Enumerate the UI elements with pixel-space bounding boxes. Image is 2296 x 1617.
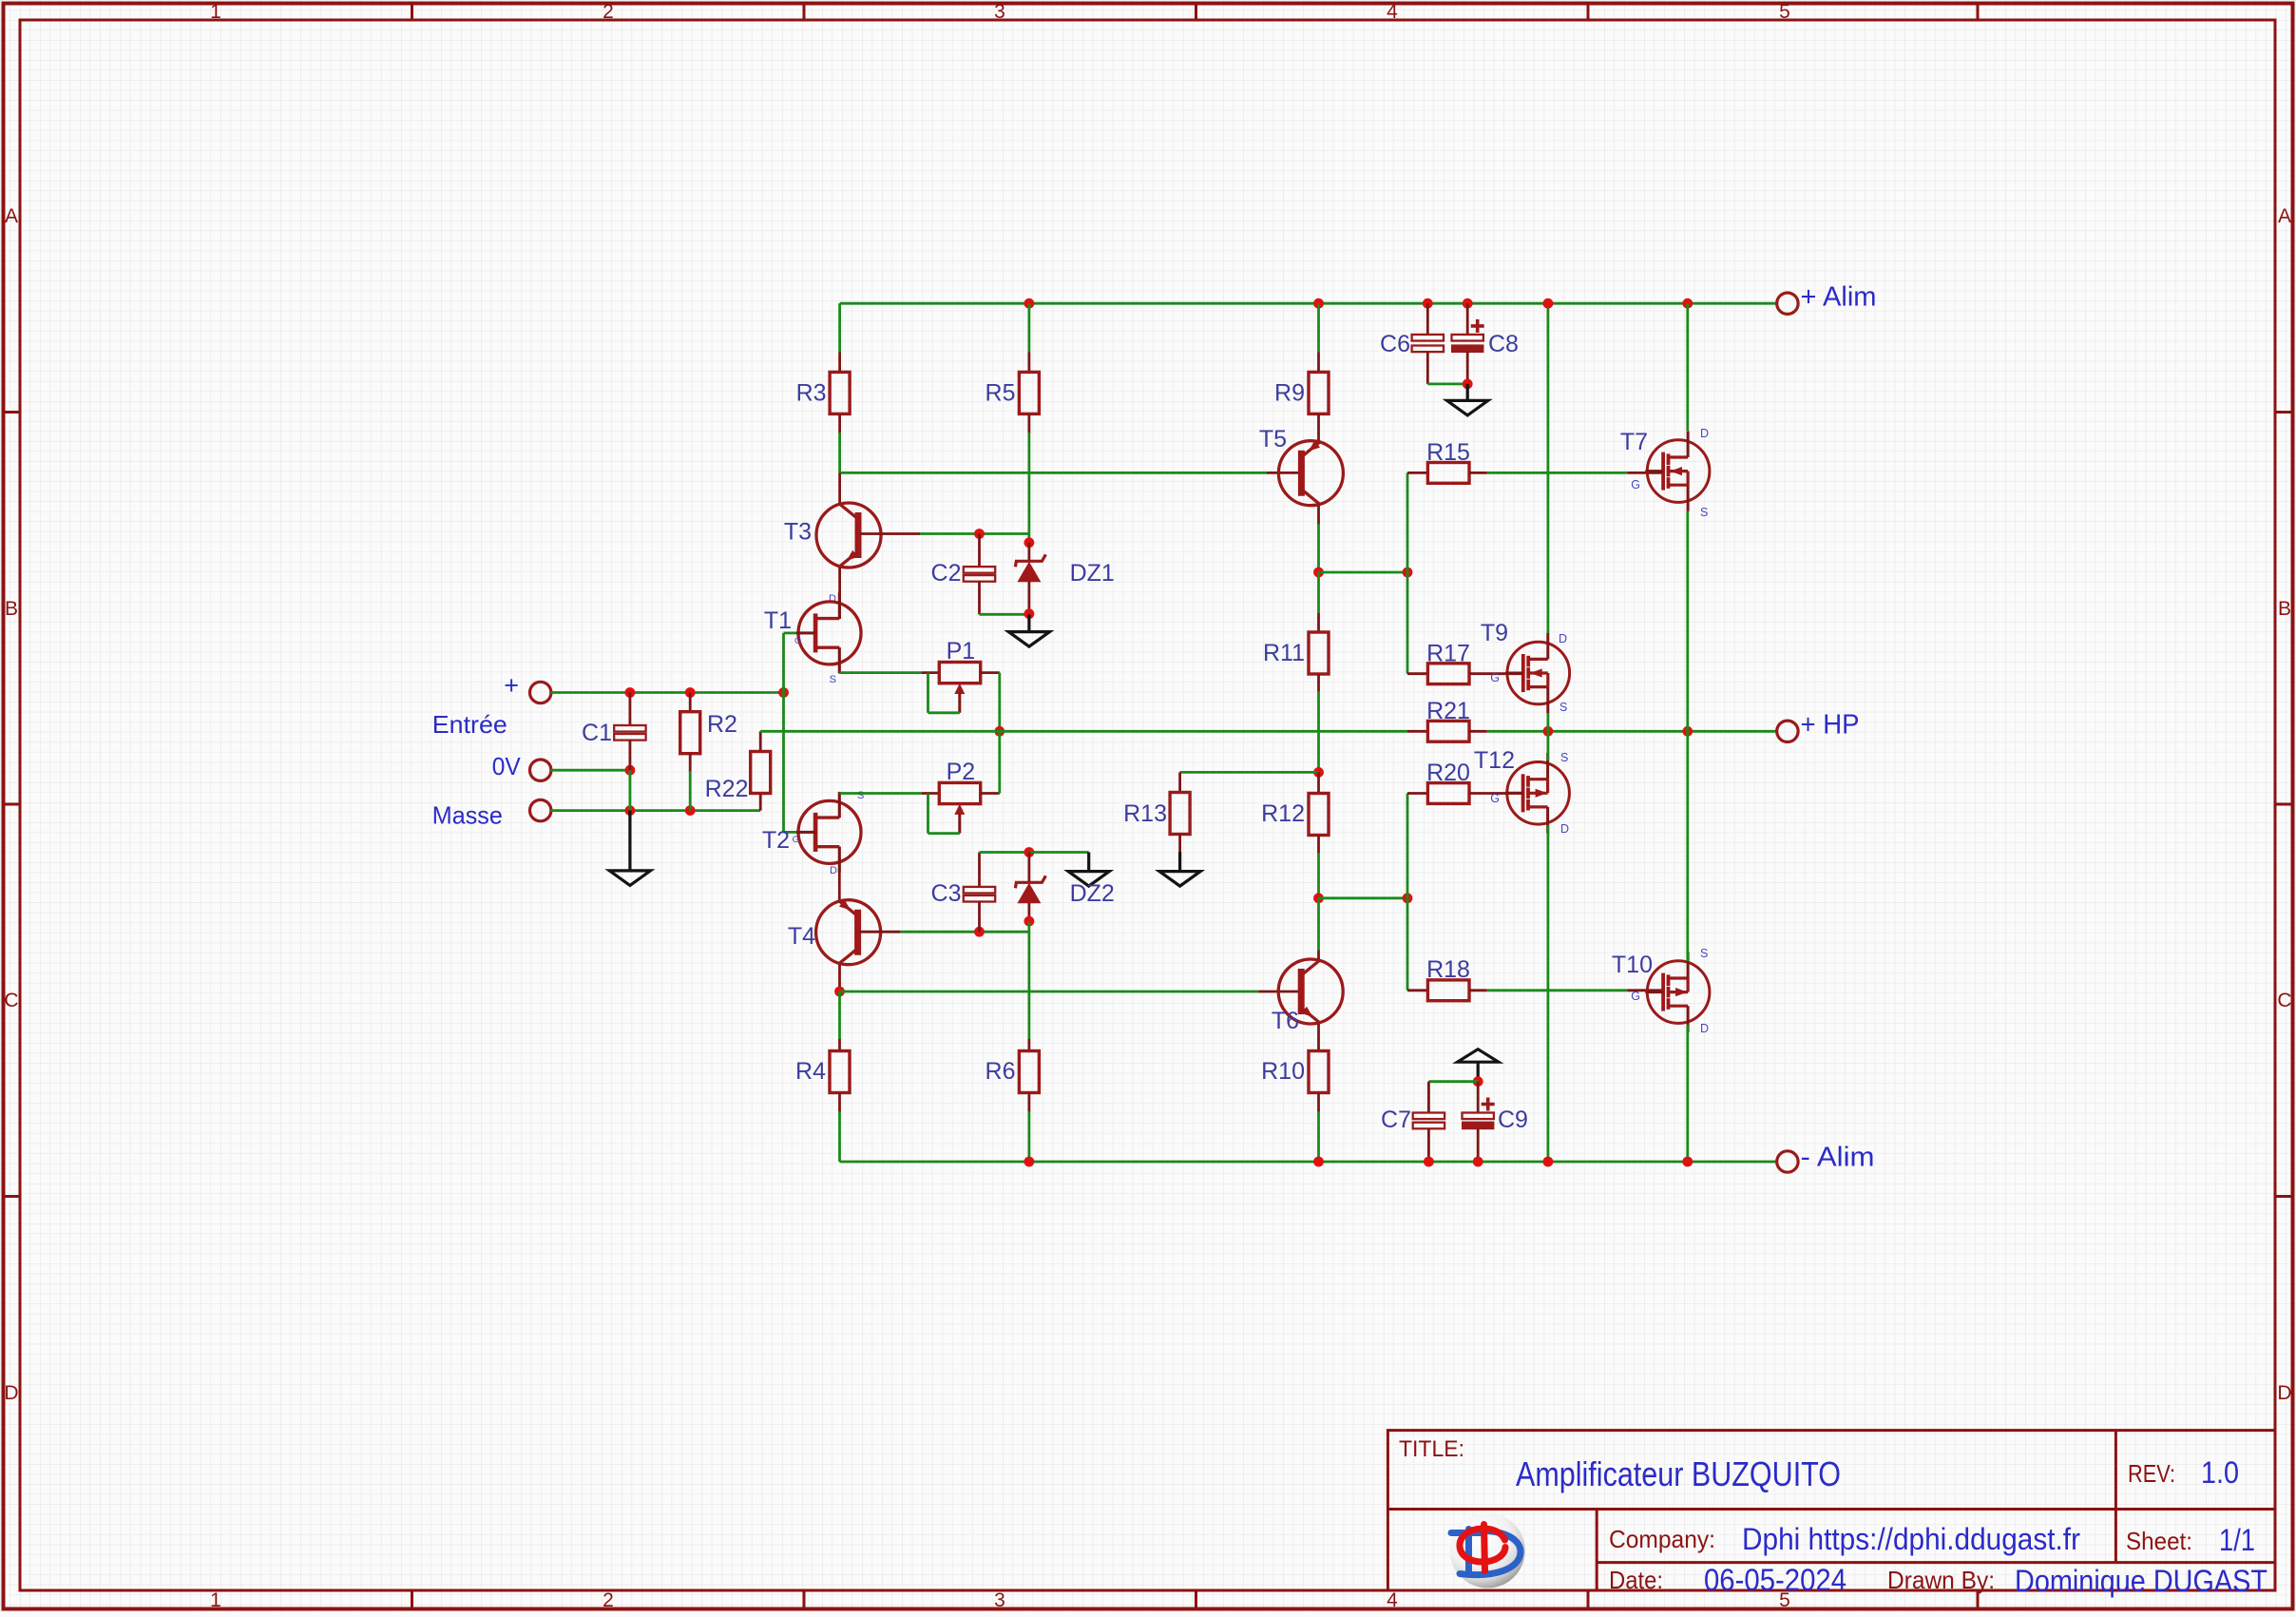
svg-text:+ Alim: + Alim <box>1801 282 1877 313</box>
resistor R22 <box>751 752 771 794</box>
transistor T7 <box>1645 431 1710 511</box>
potentiometer P2 wiper arrow <box>954 804 965 834</box>
wire C2 to DZ1 bottom <box>980 613 1029 616</box>
terminal Masse <box>530 799 551 820</box>
resistor R13 <box>1170 793 1190 835</box>
zener diode DZ2 <box>1015 876 1045 903</box>
lead R12 top <box>1317 772 1320 794</box>
lead T6 collector <box>1317 950 1320 959</box>
lead R18 left <box>1407 989 1428 991</box>
svg-text:C3: C3 <box>931 880 962 907</box>
wire C7 to C9 top <box>1428 1080 1478 1083</box>
svg-text:C2: C2 <box>931 560 962 587</box>
junction R12 bottom <box>1313 893 1324 903</box>
terminal + input <box>530 682 551 703</box>
wire C6 to C8 bottom <box>1427 382 1467 385</box>
svg-text:A: A <box>2278 205 2291 227</box>
svg-text:R2: R2 <box>707 711 737 738</box>
terminal 0V <box>530 760 551 780</box>
svg-text:P1: P1 <box>947 638 976 664</box>
lead R3 top <box>838 353 841 374</box>
resistor R18 <box>1427 980 1469 1001</box>
potentiometer P1 body <box>939 663 980 683</box>
wire R6 to rail <box>1028 1111 1031 1162</box>
svg-text:1/1: 1/1 <box>2219 1523 2255 1557</box>
lead R12 bottom <box>1317 836 1320 855</box>
wire R18 to T10 gate <box>1487 989 1627 991</box>
junction C3 bottom <box>974 927 985 937</box>
svg-text:R18: R18 <box>1426 956 1470 983</box>
svg-text:Dominique DUGAST: Dominique DUGAST <box>2015 1564 2267 1598</box>
resistor R15 <box>1427 463 1469 484</box>
capacitor C6 <box>1412 335 1444 352</box>
svg-text:3: 3 <box>994 1 1005 23</box>
junction C1 0V <box>625 765 636 776</box>
svg-text:D: D <box>1559 632 1567 645</box>
svg-text:C6: C6 <box>1380 331 1410 357</box>
zener diode DZ1 <box>1015 554 1045 582</box>
lead R20 left <box>1407 792 1428 795</box>
lead R10 bottom <box>1317 1093 1320 1113</box>
wire R3 to T3 collector node <box>838 433 841 472</box>
lead C2 top <box>978 534 981 568</box>
junction R12 top <box>1313 767 1324 778</box>
lead P2 right <box>981 792 1000 795</box>
lead R15 right <box>1469 472 1487 474</box>
potentiometer P1 wiper arrow <box>954 683 965 713</box>
lead R13 bottom <box>1178 835 1181 853</box>
lead R5 bottom <box>1028 414 1031 433</box>
svg-text:S: S <box>830 674 836 685</box>
lead R2 bottom <box>689 753 692 772</box>
lead C8 top <box>1466 303 1469 335</box>
svg-text:D: D <box>1700 427 1709 440</box>
junction C2 top <box>974 529 985 539</box>
wire node to R11 <box>1317 572 1320 613</box>
svg-text:DZ2: DZ2 <box>1070 880 1115 907</box>
junction +Alim C6 <box>1423 298 1433 309</box>
lead T7 gate <box>1627 472 1665 474</box>
svg-text:C: C <box>2277 990 2291 1011</box>
svg-text:G: G <box>1490 792 1500 805</box>
ground DZ1 <box>1008 632 1049 647</box>
wire trunk to T2 gate <box>784 831 799 834</box>
svg-text:T6: T6 <box>1272 1008 1299 1034</box>
svg-text:T3: T3 <box>784 519 812 546</box>
wire rail to T7 drain <box>1686 303 1689 431</box>
potentiometer P2 body <box>939 782 980 803</box>
svg-text:Masse: Masse <box>432 800 503 829</box>
wire + input line <box>551 691 784 694</box>
svg-text:T4: T4 <box>788 923 815 950</box>
junction R20 column <box>1403 893 1413 903</box>
transistor T2 <box>796 792 861 873</box>
junction R2 masse <box>685 805 696 816</box>
junction DZ1 top <box>1024 537 1035 548</box>
lead R5 top <box>1028 353 1031 374</box>
transistor T3 <box>816 503 881 568</box>
resistor R5 <box>1019 372 1039 414</box>
capacitor C8 <box>1452 319 1484 353</box>
ground R13 <box>1159 872 1200 887</box>
junction C1 + <box>625 687 636 698</box>
lead R20 right to T12 gate <box>1469 792 1524 795</box>
svg-text:Drawn By:: Drawn By: <box>1887 1566 1995 1594</box>
junction R6 rail <box>1024 1157 1035 1167</box>
junction R10 rail <box>1313 1157 1324 1167</box>
transistor T9 <box>1505 633 1570 714</box>
svg-text:R10: R10 <box>1261 1058 1305 1085</box>
svg-text:T7: T7 <box>1620 429 1648 455</box>
svg-text:R22: R22 <box>705 776 749 802</box>
resistor R21 <box>1427 721 1469 741</box>
wire R2 to masse <box>689 771 692 811</box>
lead R21 left <box>1407 730 1428 733</box>
terminal + Alim <box>1777 293 1798 314</box>
wire P2 wiper loop bottom <box>928 832 960 835</box>
svg-text:S: S <box>1700 947 1708 960</box>
junction +Alim C8 <box>1463 298 1473 309</box>
lead DZ2 cathode <box>1028 853 1031 884</box>
svg-text:D: D <box>4 1382 18 1404</box>
junction output T9/T12 <box>1543 726 1554 737</box>
wire DZ2 top to ground arm <box>1029 851 1089 854</box>
ground stem input <box>628 811 631 871</box>
junction C1 masse <box>625 805 636 816</box>
svg-text:C9: C9 <box>1498 1107 1528 1133</box>
capacitor C7 <box>1413 1113 1445 1129</box>
resistor R12 <box>1309 794 1329 836</box>
lead R3 bottom <box>838 414 841 433</box>
junction C8 ground <box>1463 379 1473 390</box>
svg-text:G: G <box>794 636 801 646</box>
lead R22 top <box>759 731 762 752</box>
lead C9 bottom <box>1477 1128 1480 1162</box>
lead T1 source <box>838 647 841 672</box>
wire R15-R17 column <box>1406 472 1409 673</box>
lead R9 top <box>1317 353 1320 374</box>
ground stem C9 <box>1477 1062 1480 1082</box>
svg-text:R21: R21 <box>1426 698 1470 724</box>
lead R17 right to T9 gate <box>1469 672 1524 675</box>
capacitor C9 <box>1463 1098 1495 1129</box>
lead P2 left <box>922 792 940 795</box>
wire T3 base to C2/DZ1 node <box>920 532 1029 535</box>
svg-text:T2: T2 <box>762 827 790 854</box>
lead T3 collector <box>838 472 841 504</box>
transistor T1 <box>796 592 861 673</box>
left ruler ticks <box>4 413 21 1197</box>
lead C8 bottom <box>1466 352 1469 384</box>
wire R13 to R12 node <box>1180 771 1319 774</box>
svg-text:+: + <box>504 671 519 700</box>
svg-text:R20: R20 <box>1426 760 1470 786</box>
junction +Alim R9 <box>1313 298 1324 309</box>
wire +Alim rail to R3 <box>838 303 841 352</box>
junction T12 rail <box>1543 1157 1554 1167</box>
transistor T4 <box>816 900 881 965</box>
wire rail to R5 <box>1028 303 1031 352</box>
resistor R20 <box>1427 783 1469 804</box>
resistor R10 <box>1309 1051 1329 1093</box>
title block frame <box>1387 1431 2275 1590</box>
lead R6 bottom <box>1028 1093 1031 1113</box>
svg-text:C: C <box>4 990 18 1011</box>
wire T1 source to P1 <box>839 671 922 674</box>
svg-text:1: 1 <box>210 1 221 23</box>
lead DZ1 anode <box>1028 582 1031 614</box>
lead T4 base <box>860 931 901 934</box>
svg-text:Date:: Date: <box>1609 1566 1663 1594</box>
lead C3 top <box>978 853 981 888</box>
svg-text:R9: R9 <box>1274 380 1305 407</box>
lead T4 collector <box>838 965 841 991</box>
lead C7 top <box>1427 1082 1430 1113</box>
lead T2 gate <box>796 831 816 834</box>
bottom ruler numbers 1-5 <box>210 1589 1790 1611</box>
wire C3 to DZ2 top <box>980 851 1029 854</box>
wire -Alim bottom rail <box>840 1161 1778 1164</box>
wire masse line <box>551 809 761 812</box>
lead C7 bottom <box>1427 1128 1430 1162</box>
svg-text:G: G <box>793 835 799 845</box>
wire T6 node to R20 column <box>1319 896 1408 899</box>
ground C9 up arrow <box>1458 1049 1499 1063</box>
lead T6 base <box>1258 991 1300 993</box>
top ruler ticks <box>412 4 1979 21</box>
junction +Alim T9 <box>1543 298 1554 309</box>
svg-text:Sheet:: Sheet: <box>2126 1527 2192 1555</box>
svg-text:Company:: Company: <box>1609 1525 1715 1553</box>
svg-text:0V: 0V <box>492 752 522 780</box>
wire T3 collector node to T5 base <box>840 472 1267 474</box>
lead C3 bottom <box>978 901 981 932</box>
wire R10 to rail <box>1317 1111 1320 1162</box>
wire DZ2 to R6 <box>1028 921 1031 1039</box>
resistor R3 <box>830 372 850 414</box>
svg-text:3: 3 <box>994 1589 1005 1611</box>
lead R21 right <box>1469 730 1487 733</box>
svg-text:2: 2 <box>603 1589 614 1611</box>
junction R2 + <box>685 687 696 698</box>
lead R18 right <box>1469 989 1487 991</box>
lead C9 top <box>1477 1082 1480 1113</box>
junction gate trunk <box>778 687 789 698</box>
resistor R11 <box>1309 632 1329 674</box>
lead R6 top <box>1028 1039 1031 1051</box>
svg-text:P2: P2 <box>947 759 976 785</box>
svg-text:C8: C8 <box>1488 331 1519 357</box>
ground stem DZ2 arm <box>1087 853 1090 872</box>
wire T10 drain to rail <box>1686 1025 1689 1162</box>
resistor R6 <box>1019 1051 1039 1093</box>
wire gate trunk T1-T2 <box>782 633 785 833</box>
resistor R2 <box>680 712 700 754</box>
svg-text:Amplificateur BUZQUITO: Amplificateur BUZQUITO <box>1516 1454 1841 1493</box>
wire P2 wiper loop up <box>927 794 929 834</box>
svg-text:R6: R6 <box>985 1058 1016 1085</box>
svg-text:Dphi https://dphi.ddugast.fr: Dphi https://dphi.ddugast.fr <box>1742 1522 2080 1556</box>
junction DZ2 top <box>1024 847 1035 857</box>
svg-text:D: D <box>1560 822 1569 836</box>
lead DZ2 anode <box>1028 903 1031 921</box>
lead C2 bottom <box>978 581 981 614</box>
wire R15 to T7 gate <box>1487 472 1627 474</box>
wire T5 collector to R15 column <box>1319 571 1408 574</box>
lead R4 top <box>838 1039 841 1051</box>
svg-text:1: 1 <box>210 1589 221 1611</box>
lead C6 bottom <box>1426 352 1429 384</box>
wire rail to T9 drain <box>1547 303 1550 633</box>
wire R12 to T6 node <box>1317 853 1320 898</box>
lead R15 left <box>1407 472 1428 474</box>
junction DZ1 bottom <box>1024 608 1035 619</box>
svg-text:D: D <box>2277 1382 2291 1404</box>
junction T10 rail <box>1682 1157 1693 1167</box>
wire R4 to rail <box>838 1111 841 1162</box>
transistor T6 <box>1278 959 1343 1024</box>
terminal + HP <box>1777 721 1798 741</box>
svg-text:R12: R12 <box>1261 800 1305 827</box>
bottom ruler ticks <box>412 1590 1979 1609</box>
resistor R17 <box>1427 664 1469 684</box>
lead DZ1 cathode <box>1028 543 1031 562</box>
capacitor C3 <box>964 887 995 902</box>
wire +Alim top rail <box>840 302 1778 305</box>
lead T6 emitter to R10 <box>1317 1024 1320 1051</box>
lead T2 source <box>838 794 841 818</box>
resistor R9 <box>1309 372 1329 414</box>
junction T4 collector <box>834 987 845 997</box>
svg-text:Entrée: Entrée <box>432 710 507 739</box>
top ruler numbers 1-5 <box>210 1 1790 23</box>
svg-text:R5: R5 <box>985 380 1016 407</box>
lead R22 bottom <box>759 794 762 810</box>
svg-text:G: G <box>1631 990 1640 1003</box>
ground stem DZ1 <box>1027 614 1030 631</box>
wire T7 source to T10 source <box>1686 511 1689 961</box>
junction +Alim R5 <box>1024 298 1035 309</box>
wire T4 collector to R4 <box>838 991 841 1039</box>
svg-text:G: G <box>1490 671 1500 684</box>
lead T5 collector <box>1317 506 1320 525</box>
svg-text:B: B <box>2278 598 2291 620</box>
svg-text:+ HP: + HP <box>1801 710 1860 741</box>
junction C9 ground <box>1473 1076 1483 1087</box>
wire P2 right up to feedback <box>998 731 1001 793</box>
resistor R4 <box>830 1051 850 1093</box>
svg-text:T5: T5 <box>1259 426 1287 452</box>
svg-text:D: D <box>1700 1022 1709 1035</box>
lead T1 gate <box>796 632 816 635</box>
capacitor C2 <box>964 567 995 582</box>
wire T4 collector to T6 base <box>840 991 1259 993</box>
svg-text:4: 4 <box>1387 1589 1398 1611</box>
svg-text:T9: T9 <box>1481 620 1508 646</box>
wire R20-R18 column <box>1406 794 1409 991</box>
lead R9 bottom to T5 emitter <box>1317 414 1320 441</box>
svg-text:R4: R4 <box>795 1058 826 1085</box>
terminal - Alim <box>1777 1151 1798 1172</box>
junction C9 rail <box>1473 1157 1483 1167</box>
wire R5 to DZ1 <box>1028 433 1031 543</box>
lead P1 right <box>981 671 1000 674</box>
svg-text:R17: R17 <box>1426 641 1470 667</box>
junction DZ2 bottom <box>1024 916 1035 927</box>
wire T5 collector down <box>1317 524 1320 572</box>
right ruler ticks <box>2275 413 2293 1197</box>
ground DZ2 arm <box>1068 872 1109 887</box>
right ruler letters A-D <box>2277 205 2291 1404</box>
lead R17 left <box>1407 672 1428 675</box>
wire T9 source to output <box>1547 713 1550 731</box>
junction output T7/T10 <box>1682 726 1693 737</box>
wire output line <box>1487 730 1778 733</box>
lead C1 top <box>629 693 632 726</box>
wire feedback line R22 to R21 <box>760 730 1407 733</box>
svg-text:- Alim: - Alim <box>1801 1143 1875 1173</box>
svg-text:S: S <box>1560 751 1568 764</box>
svg-text:G: G <box>1631 478 1640 491</box>
wire rail to R9 <box>1317 303 1320 352</box>
lead T3 emitter to T1 drain <box>838 568 841 619</box>
wire T12 source to output <box>1547 731 1550 760</box>
wire T4 base to C3 node <box>900 931 1029 934</box>
transistor T10 <box>1645 952 1710 1032</box>
transistor T5 <box>1278 441 1343 506</box>
svg-text:C1: C1 <box>582 720 612 746</box>
svg-text:R15: R15 <box>1426 439 1470 466</box>
svg-text:4: 4 <box>1387 1 1398 23</box>
wire P1 right down to feedback <box>998 673 1001 732</box>
ground stem C8 <box>1466 384 1469 401</box>
transistor T12 <box>1505 753 1570 834</box>
wire P1 wiper loop up <box>927 673 929 713</box>
svg-text:TITLE:: TITLE: <box>1399 1436 1464 1462</box>
junction T5 collector <box>1313 568 1324 578</box>
junction +Alim T7 <box>1682 298 1693 309</box>
svg-text:S: S <box>857 790 864 801</box>
wire C1 0V to masse <box>629 770 632 810</box>
lead T10 gate <box>1627 989 1665 991</box>
svg-text:B: B <box>5 598 18 620</box>
wire P1 wiper loop bottom <box>928 711 960 714</box>
junction C7 rail <box>1424 1157 1434 1167</box>
lead P1 left <box>922 671 940 674</box>
svg-text:S: S <box>1700 506 1708 519</box>
ground stem R13 <box>1178 852 1181 872</box>
svg-text:5: 5 <box>1779 1 1790 23</box>
svg-text:T10: T10 <box>1612 952 1653 978</box>
lead T3 base <box>860 532 920 535</box>
company logo sphere <box>1450 1513 1525 1588</box>
lead R11 top <box>1317 613 1320 633</box>
svg-text:T12: T12 <box>1474 747 1515 774</box>
wire T6 collector up <box>1317 898 1320 951</box>
svg-text:06-05-2024: 06-05-2024 <box>1704 1563 1846 1597</box>
lead T2 drain to T4 <box>838 847 841 900</box>
wire T12 drain to rail <box>1547 825 1550 1162</box>
wire R11 to R12 node <box>1317 691 1320 772</box>
svg-text:2: 2 <box>603 1 614 23</box>
svg-text:R3: R3 <box>796 380 827 407</box>
lead C1 bottom <box>629 740 632 770</box>
svg-text:T1: T1 <box>764 607 792 634</box>
wire T2 source to P2 <box>839 792 922 795</box>
svg-text:R11: R11 <box>1263 640 1305 666</box>
svg-text:REV:: REV: <box>2128 1459 2175 1488</box>
svg-text:D: D <box>830 865 837 876</box>
